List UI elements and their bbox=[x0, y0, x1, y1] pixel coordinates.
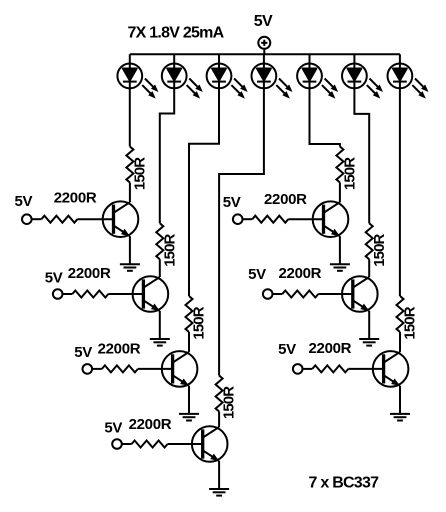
resistor 150R (channel 3) bbox=[186, 296, 193, 332]
ground (channel 4) bbox=[209, 489, 229, 496]
svg-text:150R: 150R bbox=[371, 233, 388, 266]
LED D6 bbox=[342, 64, 383, 99]
ground (channel 5) bbox=[330, 264, 350, 271]
resistor 2200R (channel 2) bbox=[72, 291, 108, 298]
resistor 2200R (channel 7) bbox=[312, 365, 348, 372]
LED D5 bbox=[297, 64, 338, 99]
wire: Q2 emitter to ground bbox=[159, 311, 161, 339]
svg-text:5V: 5V bbox=[15, 193, 33, 210]
wire: Q6 emitter to ground bbox=[368, 311, 370, 339]
transistor Q5 (BC337, NPN) bbox=[313, 201, 349, 237]
svg-text:7X 1.8V 25mA: 7X 1.8V 25mA bbox=[128, 25, 225, 42]
LED D3 bbox=[207, 64, 248, 99]
resistor 150R (channel 5) bbox=[336, 147, 343, 183]
wire: 150R to Q2 collector bbox=[159, 259, 161, 277]
wire: LED D6 branch from 5V bus to 150R resistor bbox=[354, 54, 369, 223]
resistor 2200R (channel 5) bbox=[252, 216, 288, 223]
wire: input terminal to 2200R (channel 1) bbox=[32, 218, 42, 220]
power 5V supply terminal (circle-plus) bbox=[258, 37, 270, 54]
node: 5V input terminal (channel 5) bbox=[233, 214, 243, 224]
resistor 150R (channel 7) bbox=[397, 296, 404, 332]
wire: LED D5 branch from 5V bus to 150R resistor bbox=[310, 54, 340, 146]
wire: LED D7 branch from 5V bus to 150R resistor bbox=[399, 54, 401, 296]
svg-text:150R: 150R bbox=[161, 233, 178, 266]
ground (channel 6) bbox=[359, 339, 379, 346]
ground (channel 7) bbox=[390, 414, 410, 421]
svg-text:5V: 5V bbox=[278, 341, 296, 358]
svg-text:5V: 5V bbox=[254, 13, 273, 30]
svg-text:2200R: 2200R bbox=[129, 416, 172, 433]
svg-text:2200R: 2200R bbox=[279, 265, 322, 282]
wire: input terminal to 2200R (channel 4) bbox=[122, 443, 132, 445]
resistor 2200R (channel 6) bbox=[282, 291, 318, 298]
resistor 2200R (channel 1) bbox=[41, 216, 77, 223]
resistor 150R (channel 2) bbox=[156, 223, 163, 259]
wire: 150R to Q1 collector bbox=[129, 183, 131, 203]
svg-text:2200R: 2200R bbox=[264, 191, 307, 208]
wire: 2200R to Q6 base bbox=[318, 293, 353, 295]
wire: LED D4 branch from 5V bus to 150R resistor bbox=[219, 54, 264, 375]
wire: input terminal to 2200R (channel 3) bbox=[92, 368, 102, 370]
svg-text:150R: 150R bbox=[191, 306, 208, 339]
wire: 150R to Q3 collector bbox=[188, 332, 190, 352]
wire: top 5V bus bbox=[130, 53, 400, 55]
svg-text:150R: 150R bbox=[132, 157, 149, 190]
resistor 2200R (channel 3) bbox=[102, 365, 138, 372]
svg-text:5V: 5V bbox=[223, 194, 241, 211]
wire: 150R to Q7 collector bbox=[399, 332, 401, 352]
svg-text:2200R: 2200R bbox=[68, 265, 111, 282]
ground (channel 2) bbox=[150, 339, 170, 346]
wire: LED D2 branch from 5V bus to 150R resistor bbox=[160, 54, 174, 223]
transistor Q3 (BC337, NPN) bbox=[162, 351, 198, 387]
ground (channel 1) bbox=[120, 264, 140, 271]
wire: input terminal to 2200R (channel 5) bbox=[243, 218, 253, 220]
node: 5V input terminal (channel 4) bbox=[112, 439, 122, 449]
transistor Q1 (BC337, NPN) bbox=[103, 201, 139, 237]
wire: 150R to Q5 collector bbox=[339, 183, 341, 203]
wire: input terminal to 2200R (channel 6) bbox=[273, 293, 283, 295]
svg-text:5V: 5V bbox=[104, 420, 122, 437]
node: 5V input terminal (channel 3) bbox=[83, 364, 93, 374]
wire: input terminal to 2200R (channel 7) bbox=[303, 368, 313, 370]
svg-text:2200R: 2200R bbox=[98, 341, 141, 358]
svg-text:150R: 150R bbox=[342, 157, 359, 190]
svg-text:5V: 5V bbox=[45, 269, 63, 286]
transistor Q4 (BC337, NPN) bbox=[192, 426, 228, 462]
svg-text:2200R: 2200R bbox=[309, 340, 352, 357]
resistor 150R (channel 6) bbox=[366, 223, 373, 259]
transistor Q6 (BC337, NPN) bbox=[342, 276, 378, 312]
resistor 150R (channel 4) bbox=[216, 376, 223, 412]
wire: LED D3 branch from 5V bus to 150R resistor bbox=[189, 54, 219, 296]
wire: input terminal to 2200R (channel 2) bbox=[63, 293, 73, 295]
wire: Q5 emitter to ground bbox=[339, 236, 341, 264]
ground (channel 3) bbox=[179, 414, 199, 421]
resistor 150R (channel 1) bbox=[126, 147, 133, 183]
wire: 2200R to Q5 base bbox=[288, 218, 323, 220]
svg-text:2200R: 2200R bbox=[54, 189, 97, 206]
transistor Q7 (BC337, NPN) bbox=[373, 351, 409, 387]
wire: 2200R to Q3 base bbox=[138, 368, 173, 370]
LED D2 bbox=[162, 64, 203, 99]
node: 5V input terminal (channel 6) bbox=[263, 289, 273, 299]
wire: 150R to Q6 collector bbox=[368, 259, 370, 277]
node: 5V input terminal (channel 2) bbox=[53, 289, 63, 299]
resistor 2200R (channel 4) bbox=[132, 441, 168, 448]
wire: Q4 emitter to ground bbox=[218, 461, 220, 489]
svg-text:150R: 150R bbox=[221, 386, 238, 419]
wire: Q3 emitter to ground bbox=[188, 386, 190, 414]
wire: 2200R to Q4 base bbox=[168, 443, 203, 445]
node: 5V input terminal (channel 1) bbox=[22, 214, 32, 224]
wire: 150R to Q4 collector bbox=[218, 412, 220, 428]
LED D1 bbox=[117, 64, 158, 99]
svg-text:7 x BC337: 7 x BC337 bbox=[309, 475, 380, 492]
wire: 2200R to Q1 base bbox=[77, 218, 113, 220]
LED D7 bbox=[388, 64, 429, 99]
wire: Q7 emitter to ground bbox=[399, 386, 401, 414]
wire: LED D1 branch from 5V bus to 150R resistor bbox=[129, 54, 131, 146]
transistor Q2 (BC337, NPN) bbox=[133, 276, 169, 312]
svg-text:5V: 5V bbox=[248, 266, 266, 283]
wire: 2200R to Q2 base bbox=[108, 293, 143, 295]
node: 5V input terminal (channel 7) bbox=[293, 364, 303, 374]
LED D4 bbox=[252, 64, 293, 99]
wire: 2200R to Q7 base bbox=[348, 368, 383, 370]
svg-text:150R: 150R bbox=[402, 306, 419, 339]
wire: Q1 emitter to ground bbox=[129, 236, 131, 264]
svg-text:5V: 5V bbox=[74, 344, 92, 361]
